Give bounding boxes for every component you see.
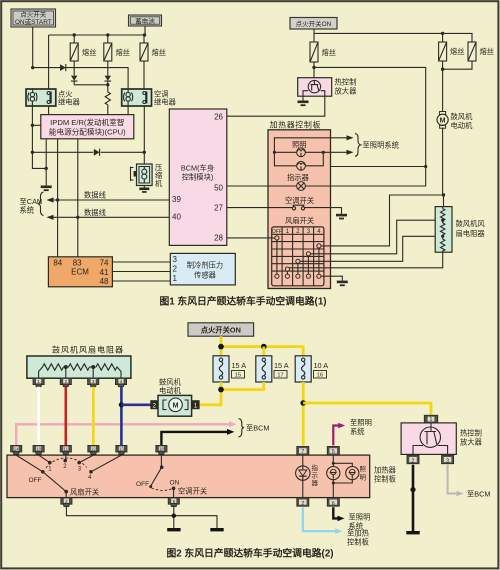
wire yellow T3 — [92, 387, 95, 446]
wire CAN data line 2 — [48, 216, 169, 218]
node bus-fuse2 — [106, 33, 109, 36]
svg-text:器: 器 — [312, 479, 319, 487]
node fuse join — [441, 68, 444, 71]
svg-text:放大器: 放大器 — [460, 438, 483, 447]
wire pink BCM sense — [16, 424, 231, 446]
wire compressor feed line — [32, 151, 144, 153]
svg-text:BCM(车身: BCM(车身 — [181, 164, 214, 173]
svg-text:图1 东风日产颐达轿车手动空调电路(1): 图1 东风日产颐达轿车手动空调电路(1) — [159, 295, 326, 308]
wire yellow top bus — [221, 347, 303, 356]
ground IPDM — [41, 186, 52, 192]
node compressor junction — [143, 151, 146, 154]
fan switch grid — [272, 227, 324, 286]
svg-text:能电源分配模块)(CPU): 能电源分配模块)(CPU) — [49, 127, 126, 137]
ground fan out — [210, 528, 223, 531]
svg-text:放大器: 放大器 — [335, 87, 358, 96]
node ignition branch — [31, 66, 34, 69]
wire diode join bus — [74, 84, 108, 86]
wire bus1 — [49, 34, 145, 36]
lamp illumination 2 — [297, 161, 306, 170]
wire yellow fuse17 join — [221, 382, 264, 390]
svg-text:扇电阻器: 扇电阻器 — [456, 229, 486, 238]
terminal 2 resistor — [60, 378, 71, 387]
wire fuseC join fuseB — [443, 61, 472, 69]
wire blue to motor T2 — [121, 403, 151, 406]
motor terminal 1 — [192, 400, 200, 409]
AC relay K2 — [122, 89, 152, 106]
svg-text:13: 13 — [119, 447, 124, 452]
svg-text:熔丝: 熔丝 — [82, 48, 97, 57]
svg-text:电动机: 电动机 — [451, 121, 474, 130]
svg-text:电动机: 电动机 — [159, 386, 182, 395]
arrow gray BCM — [457, 491, 464, 497]
AC switch fig1 — [292, 205, 304, 210]
wire col1 drop — [286, 271, 288, 274]
svg-text:蓄电池: 蓄电池 — [135, 16, 155, 25]
connector blue c13 — [116, 445, 127, 454]
connector illum bottom c6 — [327, 498, 339, 507]
svg-text:M: M — [173, 403, 179, 410]
terminal 3 resistor — [88, 378, 99, 387]
connector fan out c12b — [61, 498, 72, 507]
svg-text:6: 6 — [332, 501, 335, 507]
wire yellow fuse15 down to motor — [198, 382, 221, 405]
svg-text:10: 10 — [36, 447, 41, 452]
node yellow ign — [218, 344, 224, 350]
wire switches to ground — [66, 507, 217, 528]
wire ignition to AC relay coil — [33, 68, 128, 89]
node ign power tap — [424, 165, 427, 168]
ECM box — [48, 257, 112, 287]
fan rotary switch — [16, 455, 121, 498]
svg-text:熔丝: 熔丝 — [152, 48, 167, 57]
svg-text:加热器: 加热器 — [374, 466, 397, 475]
svg-text:M: M — [440, 118, 446, 125]
amp connector 3 — [442, 455, 454, 464]
ignition relay K1 — [26, 89, 56, 106]
svg-text:27: 27 — [214, 203, 223, 212]
contact col3 — [306, 252, 310, 256]
node motor-indicator junction — [442, 193, 445, 196]
node coil-compressor line — [31, 151, 34, 154]
wire common row to ground — [321, 276, 342, 280]
svg-text:至BCM: 至BCM — [467, 490, 491, 499]
svg-text:控制板: 控制板 — [347, 537, 370, 546]
svg-text:图2 东风日产颐达轿车手动空调电路(2): 图2 东风日产颐达轿车手动空调电路(2) — [166, 547, 333, 560]
thermo amp (fig1) — [298, 78, 332, 101]
fuse FB — [439, 42, 447, 61]
svg-text:48: 48 — [100, 277, 109, 286]
svg-text:OFF: OFF — [29, 477, 42, 484]
refrigerant pressure sensor box — [170, 253, 235, 285]
connector illum top c5 — [327, 447, 339, 456]
wire fuseB leads — [442, 33, 444, 69]
wire board edge feed — [331, 166, 426, 168]
svg-text:照: 照 — [360, 465, 367, 473]
connector red c11 — [60, 445, 71, 454]
svg-text:鼓风机风: 鼓风机风 — [456, 219, 486, 228]
svg-text:明: 明 — [360, 474, 367, 482]
connector yellow c12 — [88, 445, 99, 454]
ignition switch ON box (fig1 right) — [290, 18, 337, 30]
diode D4 — [94, 149, 100, 156]
node bus-battery — [143, 33, 146, 36]
svg-text:14: 14 — [14, 447, 19, 452]
contact col2 — [296, 259, 300, 263]
svg-text:83: 83 — [73, 258, 82, 267]
wire fuseA to right drop — [314, 62, 426, 186]
wire IPDM to ECM 84 — [57, 139, 59, 257]
ground thermo amp — [298, 101, 309, 107]
svg-text:点火开关ON: 点火开关ON — [201, 325, 241, 334]
arrow black BCM — [227, 429, 235, 435]
svg-text:至加热: 至加热 — [347, 529, 370, 538]
svg-text:50: 50 — [214, 184, 223, 193]
wire fuse2 leads — [107, 35, 109, 74]
wire OFF drop — [276, 240, 278, 274]
wire BCM50 indicator line — [227, 185, 331, 187]
node yellow amp branch — [300, 400, 306, 406]
svg-text:28: 28 — [214, 234, 223, 243]
svg-text:鼓风机风扇电阻器: 鼓风机风扇电阻器 — [52, 345, 124, 355]
svg-text:5: 5 — [332, 449, 335, 455]
diode D1 — [60, 64, 66, 71]
svg-text:熔丝: 熔丝 — [322, 48, 337, 57]
svg-text:17: 17 — [277, 373, 283, 379]
svg-text:40: 40 — [172, 213, 181, 222]
wire K2 contact down to compressor node — [143, 106, 145, 152]
ground AC switch — [336, 214, 347, 220]
amp connector 2 — [407, 455, 419, 464]
blower fan resistor fig1 — [435, 207, 452, 253]
svg-text:风扇开关: 风扇开关 — [285, 216, 314, 225]
motor terminal 2 — [150, 400, 158, 409]
svg-text:点火开关ON: 点火开关ON — [296, 19, 332, 28]
wire yellow to amp — [303, 403, 431, 415]
svg-text:10 A: 10 A — [314, 361, 329, 370]
arrow CAN 1 — [47, 197, 54, 202]
svg-text:84: 84 — [53, 258, 62, 267]
wire compressor to ground — [143, 186, 145, 188]
svg-text:2: 2 — [412, 458, 415, 464]
wire yellow fuse10 down — [302, 382, 305, 445]
svg-text:熔丝: 熔丝 — [116, 48, 131, 57]
svg-text:空调开关: 空调开关 — [285, 196, 314, 205]
wire amp ground — [412, 465, 415, 531]
fuse F1 — [70, 43, 78, 61]
IPDM E/R box — [41, 115, 134, 139]
wire K1 contact to IPDM — [48, 106, 50, 115]
ground AC out — [167, 528, 180, 531]
svg-text:15 A: 15 A — [232, 361, 247, 370]
wire yellow fuse2 lead — [262, 347, 265, 356]
wire fuseA node — [312, 66, 315, 69]
ground compressor — [139, 188, 149, 193]
svg-text:热控制: 热控制 — [460, 429, 482, 438]
fuse F2 — [104, 43, 112, 61]
node yellow join — [218, 387, 224, 393]
wire amp output to BCM 26 — [227, 96, 325, 116]
ignition switch ON box fig2 — [188, 323, 254, 336]
resistor R-ipdm — [105, 85, 110, 115]
fuse 10A no16 — [295, 356, 311, 382]
wire purple illumination — [333, 426, 339, 446]
svg-text:ON或START: ON或START — [15, 17, 52, 26]
node blue motor branch — [119, 402, 124, 407]
node switch ground join — [172, 514, 176, 518]
wire col3 drop — [307, 256, 309, 274]
blower motor fig2 — [158, 395, 192, 416]
connector white c10 — [33, 445, 44, 454]
node diode-resistor — [106, 83, 109, 86]
wire BCM28 to OFF contact — [227, 237, 275, 239]
svg-text:照明: 照明 — [292, 140, 307, 149]
svg-text:OFF: OFF — [136, 481, 149, 488]
svg-text:系统: 系统 — [20, 206, 35, 215]
wire fuse3 leads — [143, 35, 145, 89]
heater control board fig2 — [7, 455, 370, 498]
wire yellow ign down — [220, 336, 223, 356]
svg-text:3: 3 — [173, 255, 178, 264]
svg-text:OFF: OFF — [272, 229, 282, 235]
wire ignition down — [32, 27, 34, 68]
svg-text:1: 1 — [173, 274, 178, 283]
wire lamp1 to arrow2 — [305, 151, 352, 153]
blower fan resistor fig2 — [27, 356, 131, 378]
node lamp2 riser — [322, 151, 325, 154]
wire col1 to resistor bottom — [290, 252, 443, 268]
wire motor to resistor top — [443, 195, 445, 207]
node data2-ECM84 — [76, 216, 79, 219]
svg-text:数据线: 数据线 — [84, 190, 107, 199]
svg-text:继电器: 继电器 — [58, 98, 81, 107]
svg-text:74: 74 — [100, 258, 109, 267]
arrow to illumination 2 — [347, 150, 354, 155]
arrow pink BCM — [229, 421, 237, 427]
lamp indicator fig1 — [297, 182, 306, 191]
wire black AC-BCM sense — [161, 432, 229, 446]
node bus-fuse1 — [73, 33, 76, 36]
node bus2-fuseB — [441, 32, 444, 35]
ground amp fig2 — [406, 531, 419, 534]
wire col4 drop — [318, 248, 320, 274]
wire IPDM to ECM 83 — [77, 139, 79, 257]
svg-text:控制板: 控制板 — [374, 475, 397, 484]
arrow lightblue — [335, 528, 342, 534]
wire battery down to bus — [144, 26, 146, 35]
wire fuse1 leads — [73, 35, 75, 74]
battery box — [129, 15, 162, 26]
node data1-ECM83 — [56, 198, 59, 201]
BCM box — [169, 109, 227, 245]
svg-text:ON: ON — [170, 479, 180, 486]
connector AC c18 — [156, 445, 167, 454]
svg-text:鼓风机: 鼓风机 — [451, 112, 474, 121]
wire AC switch to ground — [305, 208, 342, 214]
wire col2 to resistor tap2 — [300, 236, 441, 261]
svg-text:11: 11 — [64, 447, 69, 452]
thermo amp fig2 — [401, 415, 456, 455]
blower motor fig1 — [437, 69, 448, 195]
connector AC out c8 — [168, 498, 179, 507]
wire red T2 — [65, 387, 68, 446]
arrow black illum — [338, 516, 345, 522]
wire col3 to resistor tap1 — [311, 220, 442, 254]
wire ECM74 to sensor3 — [112, 261, 170, 263]
fuse 15A no15 — [213, 356, 229, 382]
svg-text:示: 示 — [312, 472, 319, 480]
arrow purple — [338, 423, 345, 429]
wire CAN data line 1 — [48, 199, 169, 201]
contact col1 — [285, 267, 289, 271]
wire ECM41 to sensor2 — [112, 271, 170, 273]
svg-text:传感器: 传感器 — [194, 271, 217, 280]
svg-text:15: 15 — [235, 373, 241, 379]
indicator lamp fig2 — [296, 455, 310, 498]
svg-text:IPDM E/R(发动机室智: IPDM E/R(发动机室智 — [50, 117, 124, 127]
node yellow fuse2 — [261, 344, 267, 350]
AC switch fig2 — [136, 455, 180, 498]
wire white T1 — [37, 387, 40, 446]
wire gray amp to BCM — [448, 465, 457, 494]
wire lamp2 link — [274, 152, 323, 166]
svg-text:2: 2 — [301, 501, 304, 507]
fuse F3 — [140, 43, 148, 61]
wire lightblue to heater板 — [303, 507, 336, 531]
wire bus2 — [314, 33, 472, 42]
svg-text:控制模块): 控制模块) — [182, 173, 214, 182]
ignition switch ON/START box — [11, 9, 56, 27]
svg-text:26: 26 — [214, 112, 223, 121]
svg-text:18: 18 — [159, 447, 164, 452]
svg-text:熔丝: 熔丝 — [450, 47, 465, 56]
svg-text:3: 3 — [446, 458, 449, 464]
compressor — [131, 164, 153, 186]
svg-text:12: 12 — [91, 447, 96, 452]
node amp ground — [410, 487, 415, 492]
arrow to illumination 1 — [347, 135, 354, 140]
svg-text:空调开关: 空调开关 — [178, 487, 207, 496]
svg-text:至BCM: 至BCM — [246, 424, 270, 433]
node ground join — [45, 167, 48, 170]
contact col4 — [317, 244, 321, 248]
contact OFF — [275, 236, 279, 240]
wire stub into IPDM — [32, 124, 40, 126]
brace illumination — [355, 134, 361, 157]
svg-text:7: 7 — [301, 449, 304, 455]
terminal 4 resistor — [115, 378, 126, 387]
svg-text:16: 16 — [317, 373, 323, 379]
node coil stub — [31, 124, 34, 127]
connector indicator top c7 — [297, 447, 309, 456]
connector indicator bottom c2 — [297, 498, 309, 507]
wire bus to K1 contact — [48, 35, 50, 89]
wire ign ON down — [313, 29, 315, 42]
svg-text:ECM: ECM — [71, 268, 89, 277]
svg-text:制冷剂压力: 制冷剂压力 — [187, 261, 223, 270]
wire compressor drop — [143, 152, 145, 164]
svg-text:至照明: 至照明 — [350, 418, 372, 427]
svg-text:数据线: 数据线 — [84, 208, 107, 217]
svg-text:加热器控制板: 加热器控制板 — [270, 119, 322, 129]
svg-text:指: 指 — [312, 463, 319, 472]
fuse 15A no17 — [256, 356, 272, 382]
wire black to illumination system — [333, 507, 338, 518]
svg-text:15 A: 15 A — [274, 361, 289, 370]
contacts bottom row — [275, 274, 321, 278]
svg-text:机: 机 — [155, 179, 163, 188]
svg-text:2: 2 — [173, 265, 178, 274]
svg-text:39: 39 — [172, 195, 181, 204]
brace BCM — [239, 419, 244, 437]
wire BCM27 to AC switch — [227, 207, 292, 209]
wire ECM48 to sensor1 — [112, 280, 170, 282]
wire illumination top loop / arrow1 — [274, 138, 352, 153]
ground fan common — [337, 281, 348, 287]
wire col4 to motor line — [321, 195, 442, 246]
fuse FA — [310, 42, 318, 62]
svg-text:系统: 系统 — [350, 427, 365, 436]
svg-text:继电器: 继电器 — [154, 98, 177, 107]
svg-text:热控制: 热控制 — [335, 78, 357, 87]
terminal 1 resistor — [33, 378, 44, 387]
wire K1 coil down left of IPDM — [32, 106, 46, 168]
wire blue T4 — [120, 387, 123, 446]
fuse FC — [468, 42, 476, 61]
svg-text:至照明: 至照明 — [349, 513, 371, 522]
arrow CAN 2 — [47, 215, 54, 220]
diode D2 (down under F1) — [71, 74, 78, 85]
svg-text:至照明系统: 至照明系统 — [363, 141, 399, 150]
svg-text:点火开关: 点火开关 — [20, 10, 47, 19]
wire IPDM ground line — [45, 139, 47, 186]
illumination lamps fig2 — [327, 455, 359, 498]
svg-text:风扇开关: 风扇开关 — [70, 487, 99, 496]
node loop left — [273, 151, 276, 154]
wire K2 coil to IPDM — [127, 106, 129, 115]
diode D3 (down under F2) — [105, 74, 112, 85]
svg-text:41: 41 — [100, 268, 109, 277]
wire col2 drop — [297, 263, 299, 274]
lamp illumination 1 — [297, 148, 306, 157]
svg-text:指示器: 指示器 — [287, 173, 310, 182]
connector pink c14 — [11, 445, 22, 454]
brace to-CAN — [38, 192, 44, 215]
svg-text:熔丝: 熔丝 — [480, 47, 495, 56]
heater control board fig1 — [268, 130, 331, 289]
